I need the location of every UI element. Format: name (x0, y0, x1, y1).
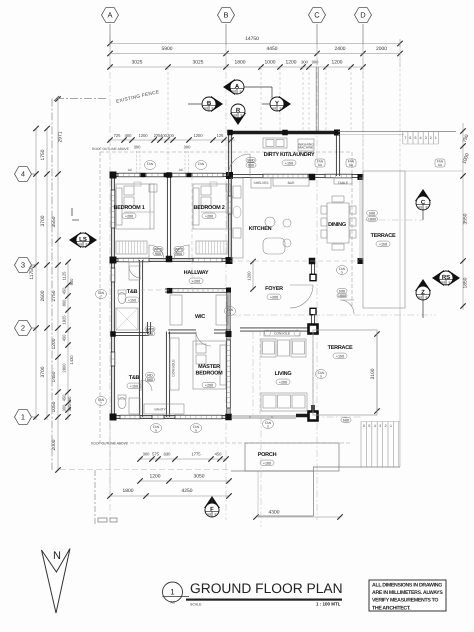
svg-text:ARE IN MILLIMETERS. ALWAYS: ARE IN MILLIMETERS. ALWAYS (372, 590, 443, 596)
svg-text:9M0: 9M0 (247, 159, 254, 163)
svg-text:A8: A8 (418, 296, 422, 300)
svg-text:2600: 2600 (40, 290, 46, 301)
svg-text:8: 8 (86, 243, 88, 247)
svg-text:A8: A8 (232, 90, 236, 94)
svg-text:DINING: DINING (328, 222, 346, 228)
svg-text:5: 5 (229, 311, 231, 315)
svg-text:5: 5 (320, 374, 322, 378)
svg-text:+150: +150 (130, 384, 138, 388)
svg-text:1 : 100 MTL: 1 : 100 MTL (316, 602, 341, 607)
svg-text:4250: 4250 (182, 488, 193, 494)
svg-text:4: 4 (21, 170, 25, 179)
svg-text:+100: +100 (263, 461, 271, 465)
svg-text:A8: A8 (418, 206, 422, 210)
svg-text:FAN: FAN (147, 162, 154, 166)
svg-text:5: 5 (368, 424, 370, 428)
svg-text:BAR: BAR (288, 181, 295, 185)
svg-text:LIVING: LIVING (275, 371, 292, 377)
svg-text:5: 5 (415, 136, 417, 140)
svg-text:TERRACE: TERRACE (371, 233, 396, 239)
svg-text:450: 450 (62, 287, 67, 295)
svg-text:4: 4 (374, 424, 376, 428)
svg-text:+200: +200 (192, 279, 200, 283)
svg-text:5: 5 (341, 270, 343, 274)
svg-text:3025: 3025 (132, 60, 143, 66)
svg-text:1: 1 (170, 588, 175, 597)
svg-text:4300: 4300 (269, 510, 280, 516)
svg-text:575: 575 (152, 452, 160, 457)
svg-text:300: 300 (62, 404, 67, 412)
svg-text:THE ARCHITECT.: THE ARCHITECT. (372, 605, 411, 611)
svg-text:A8: A8 (78, 243, 82, 247)
svg-text:A: A (107, 11, 112, 20)
svg-text:MACHINE: MACHINE (298, 146, 314, 150)
svg-text:4: 4 (420, 136, 422, 140)
svg-text:1200: 1200 (247, 271, 252, 281)
svg-text:1200: 1200 (286, 60, 297, 66)
svg-text:8: 8 (280, 107, 282, 111)
svg-text:C: C (314, 11, 320, 20)
svg-text:2: 2 (385, 424, 387, 428)
svg-text:T&B: T&B (129, 375, 140, 381)
svg-text:500: 500 (343, 419, 349, 423)
svg-text:880: 880 (147, 378, 153, 382)
svg-text:1200: 1200 (138, 133, 148, 138)
svg-text:8: 8 (215, 513, 217, 517)
svg-text:2000: 2000 (376, 46, 387, 52)
svg-text:+150: +150 (128, 298, 136, 302)
svg-text:SHELVES: SHELVES (254, 181, 270, 185)
svg-text:N: N (53, 550, 61, 562)
svg-text:AC: AC (128, 168, 133, 172)
svg-text:300: 300 (143, 452, 151, 457)
svg-text:8: 8 (241, 114, 243, 118)
svg-text:1125: 1125 (62, 271, 67, 281)
svg-text:3700: 3700 (40, 366, 46, 377)
svg-text:800: 800 (62, 299, 67, 307)
svg-text:4450: 4450 (267, 46, 278, 52)
svg-text:HALLWAY: HALLWAY (184, 270, 209, 276)
svg-text:+200: +200 (205, 214, 213, 218)
svg-text:BEDROOM 1: BEDROOM 1 (113, 205, 144, 211)
svg-text:300: 300 (184, 145, 192, 150)
svg-text:FAN: FAN (198, 162, 205, 166)
svg-text:8: 8 (426, 296, 428, 300)
svg-text:5: 5 (155, 428, 157, 432)
svg-text:CONSOLE: CONSOLE (274, 332, 291, 336)
svg-text:PORCH: PORCH (258, 452, 277, 458)
svg-text:5900: 5900 (162, 46, 173, 52)
svg-text:1: 1 (21, 413, 25, 422)
svg-text:+200: +200 (270, 295, 278, 299)
svg-text:11750: 11750 (29, 266, 35, 280)
svg-text:+200: +200 (205, 384, 213, 388)
svg-text:3100: 3100 (370, 368, 376, 379)
svg-text:6: 6 (363, 424, 365, 428)
svg-text:450: 450 (62, 394, 67, 402)
svg-text:1200: 1200 (150, 474, 161, 480)
svg-text:KITCHEN: KITCHEN (249, 226, 272, 232)
svg-text:+200: +200 (125, 214, 133, 218)
svg-text:900: 900 (248, 164, 254, 168)
svg-text:3550: 3550 (463, 213, 469, 224)
svg-text:830: 830 (164, 452, 172, 457)
svg-text:WIC: WIC (195, 314, 205, 320)
svg-text:3: 3 (425, 136, 427, 140)
svg-text:2: 2 (21, 324, 25, 333)
svg-text:6: 6 (409, 136, 411, 140)
svg-text:D: D (360, 11, 366, 20)
svg-text:BEDROOM 2: BEDROOM 2 (193, 205, 224, 211)
svg-text:VERIFY MEASUREMENTS TO: VERIFY MEASUREMENTS TO (372, 598, 438, 604)
svg-text:T&B: T&B (127, 289, 138, 295)
svg-text:CONSOLE: CONSOLE (172, 359, 176, 377)
svg-text:1: 1 (390, 424, 392, 428)
svg-text:A8: A8 (441, 281, 445, 285)
svg-text:1200: 1200 (193, 133, 203, 138)
svg-text:1800: 1800 (368, 218, 376, 222)
svg-text:5: 5 (267, 424, 269, 428)
svg-text:AC: AC (179, 168, 184, 172)
svg-text:1775: 1775 (191, 452, 201, 457)
svg-text:1200: 1200 (332, 60, 343, 66)
svg-text:2800: 2800 (62, 363, 67, 373)
svg-text:+150: +150 (285, 161, 293, 165)
svg-text:A3: A3 (170, 601, 174, 605)
svg-text:TERRACE: TERRACE (328, 345, 353, 351)
svg-text:2971: 2971 (58, 131, 64, 142)
svg-text:5: 5 (195, 428, 197, 432)
svg-text:1800: 1800 (235, 60, 246, 66)
svg-text:A8: A8 (233, 114, 237, 118)
svg-text:B: B (223, 11, 228, 20)
svg-text:2: 2 (430, 136, 432, 140)
svg-text:8: 8 (240, 90, 242, 94)
svg-text:8: 8 (426, 206, 428, 210)
svg-text:+150: +150 (379, 242, 387, 246)
svg-text:7: 7 (404, 136, 406, 140)
svg-text:450/450: 450/450 (67, 396, 72, 412)
svg-text:1800: 1800 (123, 488, 134, 494)
svg-text:DIRTY KIT/LAUNDRY: DIRTY KIT/LAUNDRY (264, 152, 315, 158)
svg-text:1925: 1925 (62, 315, 67, 325)
svg-text:1000: 1000 (265, 60, 276, 66)
svg-text:3025: 3025 (193, 60, 204, 66)
svg-text:8: 8 (212, 107, 214, 111)
svg-text:MASTER: MASTER (198, 364, 220, 370)
svg-text:1800: 1800 (338, 294, 346, 298)
svg-text:500: 500 (369, 212, 375, 216)
svg-text:GROUND FLOOR PLAN: GROUND FLOOR PLAN (190, 581, 343, 596)
svg-text:ROOF OUTLINE ABOVE: ROOF OUTLINE ABOVE (92, 147, 130, 151)
svg-text:14750: 14750 (245, 36, 259, 42)
svg-text:ALL DIMENSIONS IN DRAWING: ALL DIMENSIONS IN DRAWING (372, 583, 442, 589)
svg-text:950: 950 (69, 278, 74, 286)
svg-text:A8: A8 (207, 513, 211, 517)
svg-text:VANITY: VANITY (154, 408, 166, 412)
svg-text:900: 900 (176, 252, 182, 256)
svg-text:8: 8 (449, 281, 451, 285)
svg-text:1430: 1430 (69, 355, 74, 365)
svg-text:7: 7 (100, 294, 102, 298)
svg-text:300: 300 (134, 145, 142, 150)
svg-text:A8: A8 (204, 107, 208, 111)
svg-text:900: 900 (147, 332, 153, 336)
svg-text:TABLE: TABLE (338, 181, 349, 185)
svg-text:7: 7 (100, 401, 102, 405)
svg-text:450: 450 (215, 452, 223, 457)
svg-text:BEDROOM: BEDROOM (196, 371, 224, 377)
svg-text:400: 400 (125, 133, 133, 138)
svg-text:1850: 1850 (463, 277, 469, 288)
svg-text:3: 3 (21, 261, 25, 270)
svg-text:450: 450 (62, 334, 67, 342)
svg-text:125: 125 (217, 133, 225, 138)
svg-text:+200: +200 (279, 380, 287, 384)
svg-text:3700: 3700 (40, 215, 46, 226)
svg-text:3050: 3050 (194, 474, 205, 480)
svg-text:900: 900 (155, 252, 161, 256)
svg-text:300: 300 (301, 60, 309, 65)
svg-text:725: 725 (114, 133, 122, 138)
svg-text:900: 900 (312, 60, 320, 65)
svg-text:1750: 1750 (40, 149, 46, 160)
svg-text:A8: A8 (272, 107, 276, 111)
svg-text:3: 3 (379, 424, 381, 428)
svg-text:+150: +150 (336, 354, 344, 358)
svg-text:SCALE: SCALE (190, 603, 202, 607)
svg-text:1: 1 (435, 136, 437, 140)
svg-text:FOYER: FOYER (265, 286, 283, 292)
svg-text:2400: 2400 (335, 46, 346, 52)
